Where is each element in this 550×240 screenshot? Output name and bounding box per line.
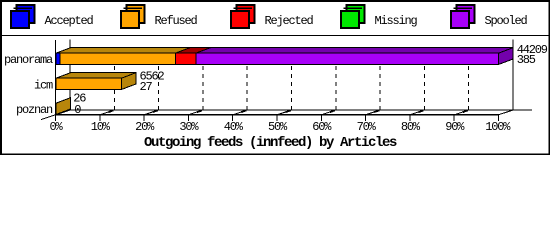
- svg-text:poznan: poznan: [16, 103, 53, 117]
- svg-text:40%: 40%: [224, 120, 244, 134]
- svg-text:Accepted: Accepted: [45, 14, 94, 28]
- svg-text:90%: 90%: [445, 120, 465, 134]
- svg-text:10%: 10%: [91, 120, 111, 134]
- svg-text:385: 385: [517, 53, 536, 67]
- svg-text:60%: 60%: [312, 120, 332, 134]
- svg-text:Rejected: Rejected: [265, 14, 314, 28]
- svg-text:30%: 30%: [179, 120, 199, 134]
- svg-text:0%: 0%: [49, 120, 63, 134]
- svg-text:icm: icm: [34, 79, 53, 93]
- svg-text:panorama: panorama: [4, 53, 53, 67]
- svg-text:0: 0: [74, 103, 81, 117]
- svg-text:50%: 50%: [268, 120, 288, 134]
- svg-text:20%: 20%: [135, 120, 155, 134]
- svg-text:Refused: Refused: [155, 14, 198, 28]
- svg-text:Missing: Missing: [375, 14, 418, 28]
- svg-text:27: 27: [140, 80, 153, 94]
- svg-text:Spooled: Spooled: [485, 14, 528, 28]
- svg-text:Outgoing feeds (innfeed) by Ar: Outgoing feeds (innfeed) by Articles: [144, 135, 397, 151]
- svg-text:100%: 100%: [485, 120, 511, 134]
- svg-text:70%: 70%: [357, 120, 377, 134]
- svg-text:80%: 80%: [401, 120, 421, 134]
